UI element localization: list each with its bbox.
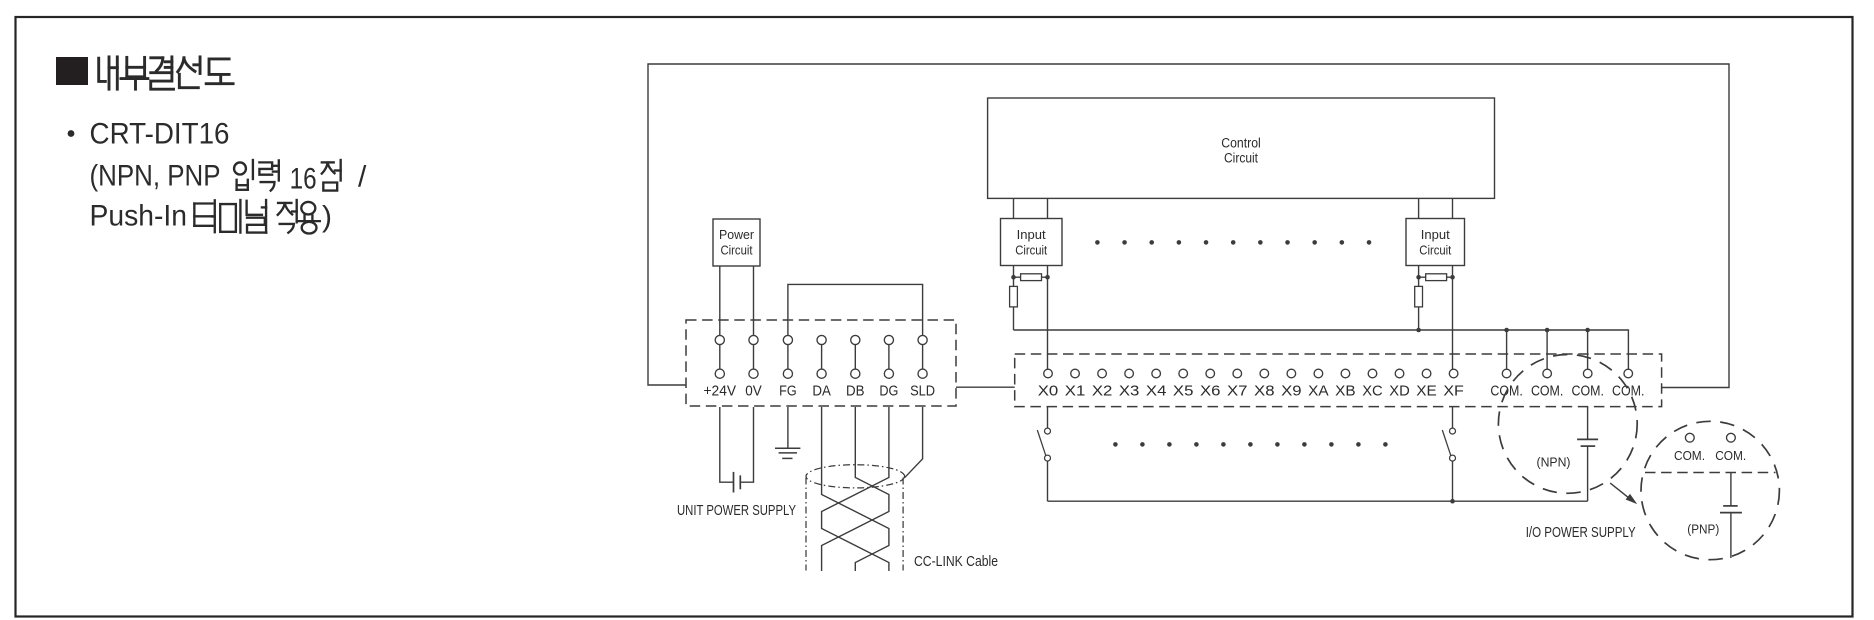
svg-text:XB: XB xyxy=(1335,382,1356,399)
svg-text:(PNP): (PNP) xyxy=(1687,522,1719,537)
svg-text:X8: X8 xyxy=(1254,382,1275,399)
svg-text:XA: XA xyxy=(1308,382,1329,399)
svg-text:Input: Input xyxy=(1421,228,1451,242)
svg-text:COM.: COM. xyxy=(1531,382,1563,399)
svg-text:I/O POWER SUPPLY: I/O POWER SUPPLY xyxy=(1526,525,1636,541)
svg-text:DB: DB xyxy=(846,382,865,399)
svg-text:X1: X1 xyxy=(1065,382,1086,399)
svg-text:FG: FG xyxy=(779,382,797,399)
svg-text:COM.: COM. xyxy=(1572,382,1604,399)
svg-text:COM.: COM. xyxy=(1674,448,1705,463)
svg-text:+24V: +24V xyxy=(704,382,737,399)
svg-text:Circuit: Circuit xyxy=(1224,151,1258,166)
svg-text:Circuit: Circuit xyxy=(1419,244,1451,258)
svg-text:(NPN): (NPN) xyxy=(1537,455,1571,470)
svg-text:COM.: COM. xyxy=(1612,382,1644,399)
svg-text:COM.: COM. xyxy=(1715,448,1746,463)
svg-text:XC: XC xyxy=(1362,382,1383,399)
svg-text:/: / xyxy=(358,161,367,194)
svg-text:X0: X0 xyxy=(1038,382,1059,399)
svg-text:Power: Power xyxy=(719,228,754,242)
svg-text:X2: X2 xyxy=(1092,382,1113,399)
svg-text:X7: X7 xyxy=(1227,382,1248,399)
svg-text:16: 16 xyxy=(290,163,317,196)
svg-text:XE: XE xyxy=(1416,382,1437,399)
svg-text:Circuit: Circuit xyxy=(721,244,753,258)
svg-text:X9: X9 xyxy=(1281,382,1302,399)
svg-text:CRT-DIT16: CRT-DIT16 xyxy=(90,118,230,151)
svg-text:XD: XD xyxy=(1389,382,1410,399)
svg-text:CC-LINK Cable: CC-LINK Cable xyxy=(914,554,998,570)
svg-text:XF: XF xyxy=(1443,382,1464,399)
svg-text:X3: X3 xyxy=(1119,382,1140,399)
svg-text:Push-In: Push-In xyxy=(90,200,188,233)
svg-text:X5: X5 xyxy=(1173,382,1194,399)
svg-text:Circuit: Circuit xyxy=(1015,244,1047,258)
svg-text:UNIT POWER SUPPLY: UNIT POWER SUPPLY xyxy=(677,503,796,519)
svg-text:0V: 0V xyxy=(745,382,762,399)
svg-text:X6: X6 xyxy=(1200,382,1221,399)
svg-text:): ) xyxy=(322,201,332,234)
svg-text:Control: Control xyxy=(1221,136,1261,151)
svg-text:DG: DG xyxy=(879,382,898,399)
svg-text:Input: Input xyxy=(1017,228,1047,242)
svg-text:X4: X4 xyxy=(1146,382,1167,399)
svg-text:DA: DA xyxy=(812,382,831,399)
svg-text:SLD: SLD xyxy=(910,382,935,399)
svg-text:(NPN, PNP: (NPN, PNP xyxy=(90,160,221,193)
